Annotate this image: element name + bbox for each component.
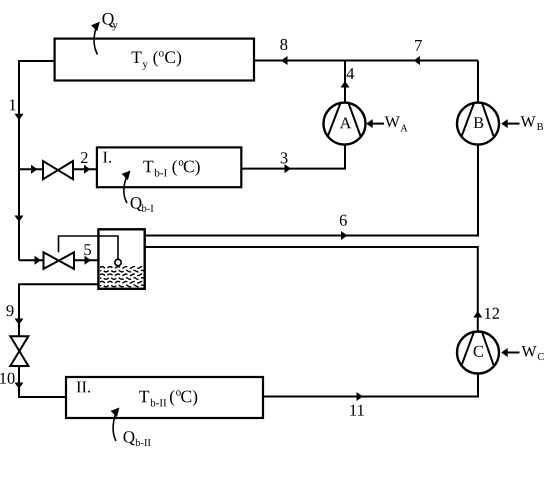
expansion valve V3 (vertical bowtie) <box>10 336 28 366</box>
float ball <box>115 259 121 265</box>
work input arrow W_B <box>501 116 543 130</box>
node 6 label <box>340 215 347 226</box>
node 2 label <box>81 152 88 163</box>
float control line from valve V2 to float <box>59 236 119 259</box>
compressor A <box>324 103 366 145</box>
label Q_b-I <box>131 197 154 212</box>
heat arrow Q_b-I (curved) <box>122 171 131 204</box>
wire 2: valve V1 to evaporator I <box>73 165 97 174</box>
wire 10: expansion valve V3 to evaporator II <box>15 366 67 397</box>
evaporator I box T_b-I <box>97 147 241 187</box>
wire 12: flash tank liquid line down to compressor C suction <box>145 247 483 331</box>
node 12 label <box>485 308 499 319</box>
node 11 label <box>350 405 363 416</box>
wire branch to valve V1 <box>19 165 43 174</box>
wire: compressor B discharge up to line 7 <box>477 61 479 103</box>
condenser box T_y <box>55 39 254 81</box>
evaporator II box T_b-II <box>66 377 263 418</box>
node 10 label <box>0 373 14 384</box>
water level hatching in flash tank <box>100 267 144 287</box>
node 4 label <box>347 68 355 79</box>
compressor B <box>457 103 499 145</box>
wire 9: flash tank liquid outlet down to expansion valve V3 <box>15 284 99 336</box>
wire branch to float valve V2 <box>19 256 44 265</box>
wire 11: evaporator II outlet to compressor C <box>263 374 478 401</box>
node 3 label <box>281 152 288 163</box>
wire 5: float valve to flash tank <box>74 256 98 265</box>
compressor C <box>457 332 499 374</box>
heat rejection arrow Q_y (curved) <box>91 22 100 55</box>
label Q_b-II <box>123 431 150 446</box>
flash tank (intercooler vessel) <box>98 229 144 288</box>
wire node1 bus: T_y outlet down left side <box>15 61 55 260</box>
wire 4: compressor A discharge up to node 8/7 line <box>341 61 350 103</box>
node 1 label <box>10 99 16 110</box>
node 8 label <box>280 39 287 50</box>
node 7 label <box>415 40 422 51</box>
wire 3: evaporator I to compressor A <box>241 145 345 173</box>
label Q_y <box>102 13 117 31</box>
work input arrow W_C <box>501 346 544 360</box>
node 5 label <box>84 244 91 255</box>
heat arrow Q_b-II (curved) <box>111 408 120 442</box>
valve V1 (expansion valve, line 1 to 2) <box>43 161 73 179</box>
wire 6: flash tank vapor line to compressor B suction <box>145 145 478 240</box>
work input arrow W_A <box>366 117 408 132</box>
wire 7/8: condenser inlet line from compressor B <box>254 56 478 65</box>
node 9 label <box>6 305 13 316</box>
float valve V2 (bowtie) <box>44 252 75 269</box>
